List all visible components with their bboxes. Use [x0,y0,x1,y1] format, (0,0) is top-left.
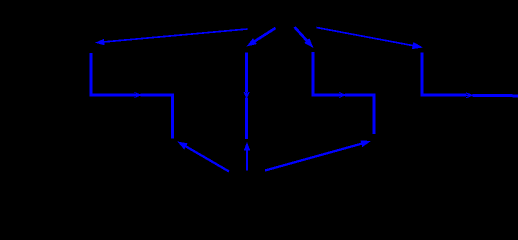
wire elbow right connector [422,52,518,95]
arrowhead mid center-right connector [339,93,346,98]
wire arrow bottom-to-left-elbow [177,141,229,171]
wire elbow center-right connector [313,52,374,134]
wire arrow top-down-right [295,27,314,48]
wire arrow top-down-left [247,28,276,47]
arrowhead mid left connector [134,93,141,98]
wire elbow left connector [91,53,173,138]
wire arrow top-to-left-node [95,29,248,45]
arrowhead mid center-left connector [244,92,249,99]
wire arrow bottom-to-right-elbow [265,140,371,170]
wire center-left vertical connector [245,52,248,139]
wire arrow top-to-right-node [317,28,424,50]
arrowhead mid right connector [466,93,474,98]
wire arrow bottom-up-center [244,142,251,170]
